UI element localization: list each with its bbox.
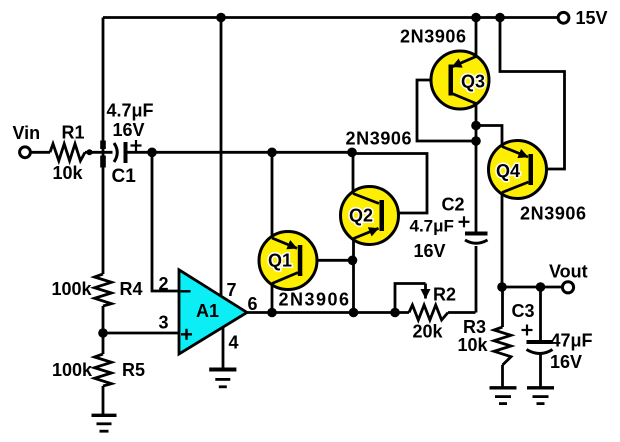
svg-text:C3: C3 [512, 301, 535, 321]
svg-text:47μF: 47μF [551, 331, 593, 351]
svg-text:R2: R2 [433, 285, 456, 305]
svg-text:100k: 100k [52, 360, 93, 380]
svg-text:2N3906: 2N3906 [400, 27, 467, 47]
svg-text:Q2: Q2 [349, 206, 373, 226]
svg-text:10k: 10k [458, 335, 489, 355]
svg-text:A1: A1 [196, 301, 219, 321]
svg-text:Q1: Q1 [268, 251, 292, 271]
svg-text:7: 7 [227, 280, 237, 300]
svg-text:R5: R5 [122, 360, 145, 380]
svg-text:6: 6 [248, 294, 258, 314]
svg-text:C2: C2 [442, 195, 465, 215]
svg-text:4.7μF: 4.7μF [107, 101, 154, 121]
svg-text:Vin: Vin [13, 123, 41, 143]
svg-text:4.7μF: 4.7μF [410, 217, 454, 236]
svg-text:16V: 16V [113, 120, 145, 140]
svg-text:R4: R4 [120, 279, 143, 299]
svg-text:16V: 16V [550, 352, 582, 372]
svg-text:10k: 10k [53, 163, 84, 183]
svg-text:Q4: Q4 [496, 161, 520, 181]
svg-text:C1: C1 [112, 166, 137, 187]
svg-text:16V: 16V [414, 241, 446, 261]
svg-text:Vout: Vout [549, 262, 588, 282]
svg-text:R1: R1 [62, 123, 85, 143]
svg-text:15V: 15V [576, 8, 608, 28]
svg-text:R3: R3 [463, 317, 486, 337]
svg-text:4: 4 [229, 333, 239, 353]
svg-text:2: 2 [159, 274, 169, 294]
svg-text:Q3: Q3 [461, 72, 485, 92]
svg-text:2N3906: 2N3906 [346, 129, 413, 149]
svg-text:2N3906: 2N3906 [279, 290, 351, 310]
svg-text:2N3906: 2N3906 [520, 204, 587, 224]
svg-text:3: 3 [159, 313, 169, 333]
svg-text:20k: 20k [413, 322, 444, 342]
svg-text:100k: 100k [52, 279, 93, 299]
